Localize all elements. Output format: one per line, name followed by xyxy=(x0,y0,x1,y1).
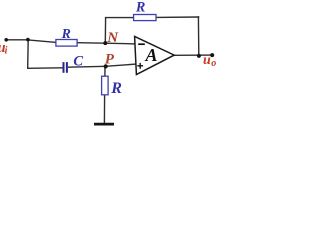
ground xyxy=(94,123,114,126)
wire op-amp output xyxy=(174,54,212,56)
node N junction dot xyxy=(103,41,107,45)
wire junction to R1 xyxy=(28,40,57,43)
wire junction down to capacitor row xyxy=(27,39,30,68)
wire node P down to R3 xyxy=(104,66,106,76)
wire to capacitor left xyxy=(27,67,63,70)
svg-text:C: C xyxy=(73,53,83,69)
wire feedback top right xyxy=(156,16,200,18)
resistor R2 (feedback resistor box) xyxy=(134,15,156,21)
capacitor C plates xyxy=(64,62,67,73)
svg-text:i: i xyxy=(5,46,8,57)
input terminal dot xyxy=(4,38,8,42)
svg-text:o: o xyxy=(211,58,216,69)
wire feedback down to output xyxy=(197,16,199,55)
svg-text:N: N xyxy=(106,30,119,46)
svg-text:A: A xyxy=(144,45,157,65)
resistor R1 (input resistor box) xyxy=(56,40,77,47)
op-amp minus sign xyxy=(138,43,145,45)
output junction dot xyxy=(197,54,201,58)
svg-text:u: u xyxy=(203,53,211,68)
svg-text:P: P xyxy=(105,52,115,68)
node P junction dot xyxy=(104,64,108,68)
svg-text:R: R xyxy=(110,80,122,97)
wire R3 to ground xyxy=(103,95,105,124)
wire node N to op-amp inverting input xyxy=(105,42,136,45)
wire capacitor to node P xyxy=(68,65,106,68)
output terminal dot xyxy=(210,53,214,57)
op-amp U1 triangle xyxy=(135,36,175,74)
svg-text:R: R xyxy=(135,0,145,16)
op-amp plus sign xyxy=(137,63,143,69)
input voltage label u_i xyxy=(0,40,8,57)
output voltage label u_o xyxy=(203,53,216,69)
wire node N up to feedback xyxy=(104,17,106,43)
svg-text:R: R xyxy=(61,26,71,41)
wire R1 to node N xyxy=(77,42,106,45)
wire input to junction xyxy=(5,39,29,41)
resistor R3 (grounding resistor box) xyxy=(102,76,109,95)
wire node P to op-amp noninverting input xyxy=(106,64,137,66)
junction dot (input split) xyxy=(26,38,30,42)
wire feedback top left xyxy=(105,17,134,19)
